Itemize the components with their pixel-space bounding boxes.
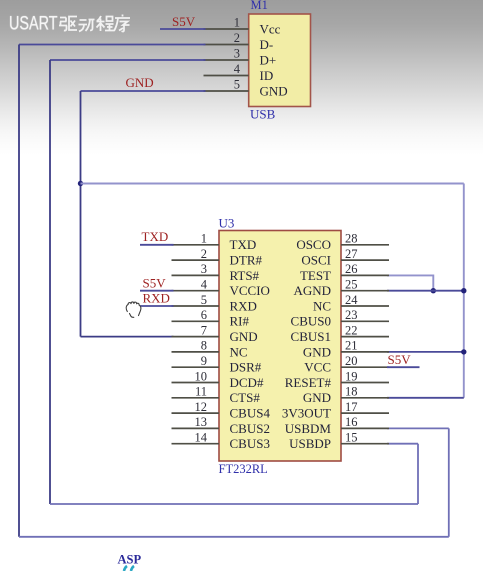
M1 pin 1 (Vcc) stub: [204, 28, 249, 30]
svg-text:DSR#: DSR#: [230, 360, 262, 375]
wire GND long horizontal y=183.5: [81, 183, 464, 185]
svg-text:M1: M1: [251, 0, 268, 12]
U3 pin name AGND: [293, 283, 331, 298]
wire GND horizontal from M1 pin 5: [81, 90, 206, 92]
net label RXD (U3 pin 5): [143, 291, 170, 306]
svg-text:RTS#: RTS#: [230, 268, 260, 283]
wire U3 pin 21 GND to right vertical: [387, 351, 464, 353]
title text "驱动程序" drawn strokes (video caption): [59, 15, 130, 32]
net label TXD (U3 pin 1): [142, 229, 169, 244]
U3 pin name DSR#: [230, 360, 262, 375]
svg-text:TEST: TEST: [300, 268, 331, 283]
U3 pin name CBUS3: [230, 436, 270, 451]
svg-text:11: 11: [195, 385, 207, 399]
svg-text:AGND: AGND: [293, 283, 331, 298]
U3 pin 22 (CBUS1) stub: [341, 336, 389, 338]
U3 pin number 1: [201, 232, 207, 246]
junction dot (433.3,291): [431, 288, 436, 293]
U3 pin 28 (OSCO) stub: [341, 244, 389, 246]
svg-text:TXD: TXD: [142, 229, 169, 244]
watermark text ASP: [118, 553, 142, 567]
wire D+ inner left vertical: [49, 60, 51, 504]
svg-text:RESET#: RESET#: [285, 375, 332, 390]
U3 pin number 18: [345, 385, 358, 399]
svg-text:22: 22: [345, 323, 358, 337]
svg-text:FT232RL: FT232RL: [219, 462, 268, 476]
U3 pin name OSCO: [296, 237, 331, 252]
U3 pin 16 (USBDM) stub: [341, 427, 389, 429]
svg-text:15: 15: [345, 431, 358, 445]
M1 pin 2 (D-) stub: [204, 44, 249, 46]
U3 pin 13 (CBUS2) stub: [172, 427, 220, 429]
U3 pin number 28: [345, 232, 358, 246]
U3 pin name USBDM: [285, 421, 332, 436]
U3 pin name USBDP: [289, 436, 331, 451]
M1 pin number 5: [234, 78, 240, 92]
svg-text:D+: D+: [260, 52, 277, 67]
U3 pin 9 (DSR#) stub: [172, 366, 220, 368]
svg-text:CTS#: CTS#: [230, 390, 261, 405]
U3 pin 4 (VCCIO) stub: [172, 290, 220, 292]
svg-text:RXD: RXD: [230, 298, 257, 313]
U3 pin number 24: [345, 293, 358, 307]
wire S5V stub: [140, 290, 174, 292]
svg-text:4: 4: [201, 278, 208, 292]
wire GND to U3 pin 7: [81, 336, 174, 338]
svg-text:12: 12: [195, 400, 208, 414]
svg-text:S5V: S5V: [143, 276, 167, 291]
U3 pin name CBUS0: [291, 314, 331, 329]
wire U3 pin 16 USBDM: [387, 427, 449, 429]
designator label M1: [251, 0, 268, 12]
M1 pin 4 (ID) stub: [204, 75, 249, 77]
U3 pin number 2: [201, 247, 207, 261]
U3 pin name GND: [230, 329, 258, 344]
svg-text:26: 26: [345, 262, 358, 276]
svg-text:OSCI: OSCI: [301, 253, 331, 268]
U3 pin number 3: [201, 262, 207, 276]
svg-text:3V3OUT: 3V3OUT: [282, 406, 331, 421]
wire U3 pin 15 USBDP: [387, 443, 418, 445]
U3 pin 11 (CTS#) stub: [172, 397, 220, 399]
connector M1 body (USB): [249, 14, 311, 107]
wire D- outer bottom horizontal: [19, 536, 449, 538]
M1 pin number 1: [234, 16, 240, 30]
U3 pin 12 (CBUS4) stub: [172, 412, 220, 414]
U3 pin 1 (TXD) stub: [172, 244, 220, 246]
wire S5V at pin 20: [387, 366, 420, 368]
M1 pin name GND: [260, 83, 288, 98]
net label GND: [126, 75, 154, 90]
svg-text:20: 20: [345, 354, 358, 368]
U3 pin name RESET#: [285, 375, 332, 390]
U3 pin 24 (NC) stub: [341, 305, 389, 307]
U3 pin name RTS#: [230, 268, 260, 283]
svg-text:NC: NC: [230, 344, 248, 359]
U3 pin number 5: [201, 293, 207, 307]
M1 pin 3 (D+) stub: [204, 59, 249, 61]
net label S5V (U3 pin 4 VCCIO): [143, 276, 167, 291]
wire GND right vertical x=463.8: [463, 184, 465, 398]
svg-text:GND: GND: [303, 344, 331, 359]
U3 pin number 21: [345, 339, 358, 353]
U3 pin number 22: [345, 323, 358, 337]
svg-text:D-: D-: [260, 37, 274, 52]
M1 pin name D-: [260, 37, 274, 52]
U3 pin 2 (DTR#) stub: [172, 259, 220, 261]
U3 pin 26 (TEST) stub: [341, 274, 389, 276]
watermark teal marks: [124, 566, 134, 571]
svg-text:Vcc: Vcc: [260, 21, 281, 36]
M1 pin name D+: [260, 52, 277, 67]
svg-text:USART: USART: [9, 14, 58, 35]
junction dot (463.8,290.7): [461, 288, 466, 293]
U3 pin 23 (CBUS0) stub: [341, 320, 389, 322]
M1 pin number 2: [234, 31, 240, 45]
wire D- outer right vertical: [448, 428, 450, 536]
U3 pin 3 (RTS#) stub: [172, 274, 220, 276]
wire D+ horizontal from M1 pin 3: [50, 59, 206, 61]
svg-text:GND: GND: [303, 390, 331, 405]
U3 pin 15 (USBDP) stub: [341, 443, 389, 445]
svg-text:8: 8: [201, 339, 207, 353]
svg-text:CBUS1: CBUS1: [291, 329, 331, 344]
svg-text:28: 28: [345, 232, 358, 246]
svg-text:5: 5: [234, 78, 240, 92]
svg-text:27: 27: [345, 247, 358, 261]
wire GND left vertical: [80, 91, 82, 337]
U3 pin 7 (GND) stub: [172, 336, 220, 338]
part type label FT232RL: [219, 462, 268, 476]
svg-text:3: 3: [234, 47, 240, 61]
M1 pin number 4: [234, 62, 241, 76]
U3 pin 27 (OSCI) stub: [341, 259, 389, 261]
U3 pin 10 (DCD#) stub: [172, 382, 220, 384]
U3 pin number 6: [201, 308, 207, 322]
svg-text:RI#: RI#: [230, 314, 250, 329]
svg-text:U3: U3: [219, 216, 235, 231]
svg-text:GND: GND: [126, 75, 154, 90]
svg-text:4: 4: [234, 62, 241, 76]
U3 pin name OSCI: [301, 253, 331, 268]
svg-text:NC: NC: [313, 298, 331, 313]
U3 pin name DTR#: [230, 253, 263, 268]
U3 pin name CTS#: [230, 390, 261, 405]
net label S5V (USB pin 1): [172, 14, 196, 29]
U3 pin name GND: [303, 344, 331, 359]
U3 pin name 3V3OUT: [282, 406, 331, 421]
U3 pin number 16: [345, 415, 358, 429]
wire D- horizontal from M1 pin 2: [19, 44, 206, 46]
svg-text:1: 1: [234, 16, 240, 30]
U3 pin number 19: [345, 369, 358, 383]
U3 pin 14 (CBUS3) stub: [172, 443, 220, 445]
svg-text:USBDP: USBDP: [289, 436, 331, 451]
wire U3 pin 25 AGND to right vertical: [387, 290, 464, 292]
U3 pin number 17: [345, 400, 358, 414]
svg-text:3: 3: [201, 262, 207, 276]
svg-text:ID: ID: [260, 68, 274, 83]
svg-text:25: 25: [345, 278, 358, 292]
U3 pin number 8: [201, 339, 207, 353]
IC U3 body (FT232RL): [219, 231, 341, 462]
U3 pin number 27: [345, 247, 358, 261]
U3 pin number 11: [195, 385, 207, 399]
U3 pin name TEST: [300, 268, 331, 283]
U3 pin number 7: [201, 323, 207, 337]
U3 pin number 15: [345, 431, 358, 445]
U3 pin name CBUS4: [230, 406, 271, 421]
svg-text:2: 2: [234, 31, 240, 45]
U3 pin name CBUS1: [291, 329, 331, 344]
svg-text:CBUS2: CBUS2: [230, 421, 270, 436]
svg-text:1: 1: [201, 232, 207, 246]
svg-text:DTR#: DTR#: [230, 253, 263, 268]
svg-text:17: 17: [345, 400, 358, 414]
wire TXD stub: [140, 244, 174, 246]
svg-text:9: 9: [201, 354, 207, 368]
svg-text:GND: GND: [230, 329, 258, 344]
U3 pin 19 (RESET#) stub: [341, 382, 389, 384]
M1 pin 5 (GND) stub: [204, 90, 249, 92]
mouse hand cursor: [126, 302, 141, 317]
M1 pin number 3: [234, 47, 240, 61]
title text "USART" (video caption): [9, 14, 58, 35]
svg-text:GND: GND: [260, 83, 288, 98]
wire D- outer left vertical: [18, 45, 20, 537]
U3 pin 6 (RI#) stub: [172, 320, 220, 322]
designator label U3: [219, 216, 235, 231]
svg-text:VCCIO: VCCIO: [230, 283, 270, 298]
wire RXD stub: [140, 305, 174, 307]
svg-text:VCC: VCC: [304, 360, 331, 375]
svg-text:CBUS4: CBUS4: [230, 406, 271, 421]
svg-text:S5V: S5V: [388, 352, 412, 367]
junction dot at GND branch (80.5,183.5): [78, 181, 83, 186]
svg-text:CBUS0: CBUS0: [291, 314, 331, 329]
svg-text:7: 7: [201, 323, 207, 337]
U3 pin name DCD#: [230, 375, 264, 390]
svg-text:CBUS3: CBUS3: [230, 436, 270, 451]
svg-text:13: 13: [195, 415, 208, 429]
svg-text:S5V: S5V: [172, 14, 196, 29]
svg-text:USBDM: USBDM: [285, 421, 332, 436]
U3 pin 25 (AGND) stub: [341, 290, 389, 292]
wire S5V to M1 pin 1: [160, 28, 206, 30]
svg-text:TXD: TXD: [230, 237, 257, 252]
svg-text:19: 19: [345, 369, 358, 383]
U3 pin number 23: [345, 308, 358, 322]
svg-text:21: 21: [345, 339, 358, 353]
U3 pin 20 (VCC) stub: [341, 366, 389, 368]
svg-text:16: 16: [345, 415, 358, 429]
part type label USB: [250, 107, 276, 122]
svg-text:23: 23: [345, 308, 358, 322]
U3 pin name GND: [303, 390, 331, 405]
svg-text:6: 6: [201, 308, 207, 322]
svg-text:5: 5: [201, 293, 207, 307]
U3 pin name CBUS2: [230, 421, 270, 436]
net label S5V (U3 pin 20 VCC): [388, 352, 412, 367]
U3 pin number 20: [345, 354, 358, 368]
svg-text:10: 10: [195, 369, 208, 383]
svg-text:ASP: ASP: [118, 553, 142, 567]
wire D+ inner bottom horizontal: [50, 503, 418, 505]
U3 pin number 14: [195, 431, 208, 445]
U3 pin number 25: [345, 278, 358, 292]
wire D+ inner right vertical: [417, 444, 419, 504]
U3 pin name RXD: [230, 298, 257, 313]
svg-text:14: 14: [195, 431, 208, 445]
U3 pin number 26: [345, 262, 358, 276]
U3 pin name VCC: [304, 360, 331, 375]
svg-text:24: 24: [345, 293, 358, 307]
U3 pin number 12: [195, 400, 208, 414]
svg-text:USB: USB: [250, 107, 276, 122]
U3 pin 17 (3V3OUT) stub: [341, 412, 389, 414]
U3 pin number 4: [201, 278, 208, 292]
U3 pin name VCCIO: [230, 283, 270, 298]
wire U3 pin 18 GND to right vertical: [387, 397, 464, 399]
M1 pin name Vcc: [260, 21, 281, 36]
M1 pin name ID: [260, 68, 274, 83]
svg-text:OSCO: OSCO: [296, 237, 331, 252]
U3 pin number 9: [201, 354, 207, 368]
U3 pin number 10: [195, 369, 208, 383]
svg-text:18: 18: [345, 385, 358, 399]
U3 pin name NC: [313, 298, 331, 313]
svg-text:RXD: RXD: [143, 291, 170, 306]
U3 pin number 13: [195, 415, 208, 429]
U3 pin 21 (GND) stub: [341, 351, 389, 353]
svg-text:2: 2: [201, 247, 207, 261]
junction dot (463.8,351.9): [461, 349, 466, 354]
svg-text:DCD#: DCD#: [230, 375, 264, 390]
U3 pin name TXD: [230, 237, 257, 252]
U3 pin name RI#: [230, 314, 250, 329]
U3 pin 8 (NC) stub: [172, 351, 220, 353]
wire U3 pin 26 TEST to AGND line: [387, 275, 433, 290]
U3 pin 18 (GND) stub: [341, 397, 389, 399]
U3 pin 5 (RXD) stub: [172, 305, 220, 307]
U3 pin name NC: [230, 344, 248, 359]
